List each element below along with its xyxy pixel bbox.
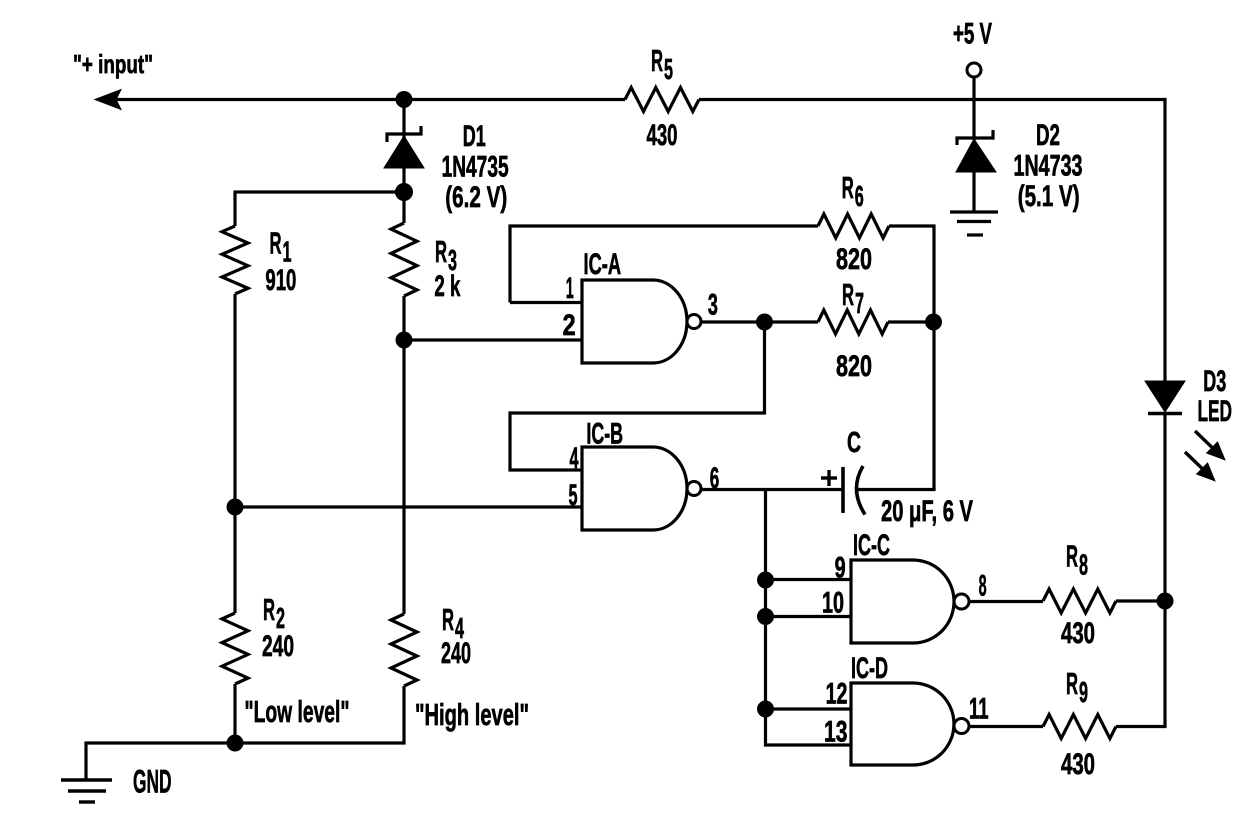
svg-text:(6.2 V): (6.2 V) xyxy=(445,181,507,214)
label D2 voltage (5.1 V) xyxy=(1018,180,1080,213)
svg-text:R: R xyxy=(270,226,282,261)
arrowhead "+ input" (points left) xyxy=(95,90,121,110)
resistor R7 xyxy=(818,310,888,334)
svg-text:10: 10 xyxy=(822,587,844,620)
label R7 xyxy=(842,277,864,320)
svg-text:430: 430 xyxy=(647,119,678,152)
wire top rail left of R5 xyxy=(108,98,625,101)
label R6 xyxy=(842,170,864,213)
wire R9 right lead xyxy=(1116,725,1167,728)
label R3 xyxy=(435,234,457,277)
svg-text:12: 12 xyxy=(826,678,848,711)
wire R7 right lead xyxy=(888,320,934,323)
resistor R8 xyxy=(1043,589,1116,613)
LED D3 cathode bar xyxy=(1148,412,1182,415)
NAND gate IC-C xyxy=(851,560,969,643)
wire R8 right lead xyxy=(1116,599,1167,602)
NAND gate IC-A xyxy=(582,280,701,363)
node junction dot under D1 xyxy=(395,183,413,201)
label C xyxy=(847,427,861,459)
resistor R2 xyxy=(222,613,248,684)
zener diode D2 triangle xyxy=(956,139,996,172)
wire IC-A pin1 lead xyxy=(510,301,582,304)
svg-text:820: 820 xyxy=(836,350,872,383)
label R9 xyxy=(1066,666,1088,709)
svg-text:R: R xyxy=(651,43,663,78)
label R7 value 820 xyxy=(836,350,872,383)
svg-text:430: 430 xyxy=(1061,617,1095,650)
label R1 value 910 xyxy=(265,264,296,297)
wire IC-C output pin8 xyxy=(969,600,1043,603)
svg-text:13: 13 xyxy=(824,715,847,748)
resistor R3 xyxy=(391,223,417,296)
svg-text:2 k: 2 k xyxy=(434,270,460,303)
wire IC-A output to R7 xyxy=(765,320,819,323)
wire pin10 lead xyxy=(766,615,852,618)
resistor R5 xyxy=(625,88,699,112)
svg-text:910: 910 xyxy=(265,264,296,297)
LED emission arrow 2 xyxy=(1185,452,1214,480)
svg-text:3: 3 xyxy=(708,289,718,322)
wire D1 cathode up to rail xyxy=(402,100,405,139)
svg-text:1N4733: 1N4733 xyxy=(1014,150,1083,183)
wire low-level node to IC-B pin5 xyxy=(235,505,582,508)
label pin 9 xyxy=(835,552,846,585)
svg-text:240: 240 xyxy=(441,637,471,670)
wire IC-A pin1 riser to R6 xyxy=(510,226,818,303)
svg-text:20 μF, 6 V: 20 μF, 6 V xyxy=(881,495,973,528)
wire D2 anode to ground xyxy=(972,172,975,212)
label R2 value 240 xyxy=(262,630,294,663)
node junction dot bottom wire xyxy=(227,735,244,752)
label LED xyxy=(1198,395,1233,428)
svg-text:8: 8 xyxy=(1079,550,1088,582)
label D1 part 1N4735 xyxy=(442,151,509,184)
wire R1 top lead xyxy=(233,191,236,227)
svg-text:D2: D2 xyxy=(1036,119,1060,152)
capacitor C left plate xyxy=(841,467,845,513)
label IC-B xyxy=(586,418,623,451)
wire top rail right of R5 xyxy=(699,98,1167,101)
zener diode D1 cathode bar xyxy=(387,126,421,142)
label R8 xyxy=(1066,539,1088,582)
capacitor C curved plate xyxy=(856,466,865,515)
label pin 6 xyxy=(710,462,720,495)
label "High level" xyxy=(415,697,529,732)
node junction dot bus/pin12 xyxy=(757,701,774,718)
resistor R9 xyxy=(1043,715,1116,739)
wire +5V down to D2 xyxy=(972,77,975,140)
svg-text:7: 7 xyxy=(855,288,864,320)
label D1 xyxy=(463,120,486,153)
wire capacitor right plate to riser xyxy=(858,488,936,491)
svg-text:D1: D1 xyxy=(463,120,486,153)
wire pin12 lead xyxy=(766,707,852,710)
label pin 5 xyxy=(569,479,578,512)
wire pin9 lead xyxy=(766,578,852,581)
node junction dot R8/LED rail xyxy=(1157,593,1174,610)
label R5 xyxy=(651,43,673,86)
svg-text:IC-B: IC-B xyxy=(586,418,623,451)
svg-text:820: 820 xyxy=(836,243,872,276)
wire R2 top lead xyxy=(233,507,236,613)
svg-text:IC-A: IC-A xyxy=(584,248,622,281)
label IC-C xyxy=(853,529,890,562)
wire IC-B output pin6 xyxy=(701,488,843,491)
zener diode D1 triangle xyxy=(384,136,424,168)
resistor R1 xyxy=(222,226,248,294)
node junction dot low-level xyxy=(227,499,244,516)
svg-text:+5 V: +5 V xyxy=(953,18,992,51)
label R4 xyxy=(442,602,464,645)
label R6 value 820 xyxy=(836,243,872,276)
svg-text:5: 5 xyxy=(569,479,578,512)
label R9 value 430 xyxy=(1061,748,1095,781)
label D2 part 1N4733 xyxy=(1014,150,1083,183)
svg-text:9: 9 xyxy=(1079,677,1088,709)
svg-text:2: 2 xyxy=(563,309,576,342)
node junction dot bus/pin9 xyxy=(757,572,774,589)
label pin 4 xyxy=(570,442,579,475)
label R3 value 2 k xyxy=(434,270,460,303)
wire IC-A output down-left to IC-B pin4 xyxy=(510,322,765,470)
label R2 xyxy=(263,592,285,635)
svg-text:240: 240 xyxy=(262,630,294,663)
label IC-D xyxy=(851,652,888,685)
svg-text:R: R xyxy=(842,277,854,312)
svg-text:11: 11 xyxy=(969,693,989,726)
svg-text:R: R xyxy=(442,602,454,637)
wire IC-A pin2 lead from R3 node xyxy=(404,338,582,341)
wire IC-D output pin11 xyxy=(969,725,1043,728)
svg-text:4: 4 xyxy=(570,442,579,475)
wire R3 node down to R4 xyxy=(402,340,405,614)
label GND xyxy=(133,764,172,800)
svg-text:6: 6 xyxy=(855,181,864,213)
wire R2 bottom lead xyxy=(233,684,236,743)
wire R1 bottom to low-level node xyxy=(233,294,236,507)
node junction dot R3/IC-A pin2 xyxy=(396,332,413,349)
zener diode D2 cathode bar xyxy=(957,130,993,145)
label pin 8 xyxy=(979,570,987,603)
label D2 xyxy=(1036,119,1060,152)
wire R3 top lead xyxy=(402,192,405,223)
svg-text:9: 9 xyxy=(835,552,846,585)
ground symbol GND xyxy=(61,780,112,802)
label R1 xyxy=(270,226,292,269)
wire IC-B output bus down xyxy=(766,490,852,746)
svg-text:IC-C: IC-C xyxy=(853,529,890,562)
LED D3 triangle xyxy=(1145,381,1185,412)
svg-text:"High level": "High level" xyxy=(415,697,529,732)
svg-text:GND: GND xyxy=(133,764,172,800)
svg-text:D3: D3 xyxy=(1203,365,1226,398)
NAND gate IC-D xyxy=(851,683,969,765)
wire R4 bottom lead xyxy=(402,686,405,745)
resistor R4 xyxy=(391,614,417,686)
svg-text:8: 8 xyxy=(979,570,987,603)
svg-text:LED: LED xyxy=(1198,395,1233,428)
label IC-A xyxy=(584,248,622,281)
wire IC-A output pin3 xyxy=(701,320,765,323)
wire R3 bottom lead to node xyxy=(402,296,405,340)
NAND gate IC-B xyxy=(582,447,701,530)
node junction dot IC-A output xyxy=(756,314,773,331)
label pin 10 xyxy=(822,587,844,620)
svg-text:430: 430 xyxy=(1061,748,1095,781)
label C value 20 uF, 6 V xyxy=(881,495,973,528)
svg-text:5: 5 xyxy=(664,54,673,86)
svg-text:R: R xyxy=(842,170,854,205)
svg-text:1N4735: 1N4735 xyxy=(442,151,509,184)
ground symbol below D2 xyxy=(950,212,998,235)
capacitor C polarity + xyxy=(821,470,837,486)
label pin 3 xyxy=(708,289,718,322)
node junction dot bus/pin10 xyxy=(757,608,774,625)
label pin 12 xyxy=(826,678,848,711)
svg-text:"Low level": "Low level" xyxy=(245,694,350,729)
label R8 value 430 xyxy=(1061,617,1095,650)
svg-text:"+ input": "+ input" xyxy=(73,49,153,79)
wire ground stub xyxy=(84,742,87,781)
svg-text:C: C xyxy=(847,427,861,459)
label D1 voltage (6.2 V) xyxy=(445,181,507,214)
label pin 1 xyxy=(566,272,574,305)
wire R6 right to riser xyxy=(889,226,934,490)
label R5 value 430 xyxy=(647,119,678,152)
wire D1 anode down xyxy=(402,168,405,192)
+5V terminal circle xyxy=(967,63,981,77)
node junction dot R7/riser xyxy=(925,314,942,331)
label pin 13 xyxy=(824,715,847,748)
resistor R6 xyxy=(818,214,889,238)
label pin 2 xyxy=(563,309,576,342)
svg-text:6: 6 xyxy=(710,462,720,495)
svg-text:(5.1 V): (5.1 V) xyxy=(1018,180,1080,213)
wire bottom ground rail xyxy=(86,741,406,744)
label "+ input" xyxy=(73,49,153,79)
label R4 value 240 xyxy=(441,637,471,670)
svg-text:R: R xyxy=(263,592,275,627)
wire D3 cathode down to R9 corner xyxy=(1163,413,1166,728)
LED emission arrow 1 xyxy=(1195,431,1224,459)
label "Low level" xyxy=(245,694,350,729)
label +5 V xyxy=(953,18,992,51)
svg-text:R: R xyxy=(1066,666,1078,701)
svg-text:1: 1 xyxy=(566,272,574,305)
svg-text:R: R xyxy=(1066,539,1078,574)
label pin 11 xyxy=(969,693,989,726)
wire from D1 node left to R1 top xyxy=(235,190,404,193)
node junction dot at D1 top / input rail xyxy=(396,91,413,108)
wire LED rail from top corner down to D3 xyxy=(1163,98,1166,382)
svg-text:R: R xyxy=(435,234,447,269)
svg-text:IC-D: IC-D xyxy=(851,652,888,685)
label D3 xyxy=(1203,365,1226,398)
